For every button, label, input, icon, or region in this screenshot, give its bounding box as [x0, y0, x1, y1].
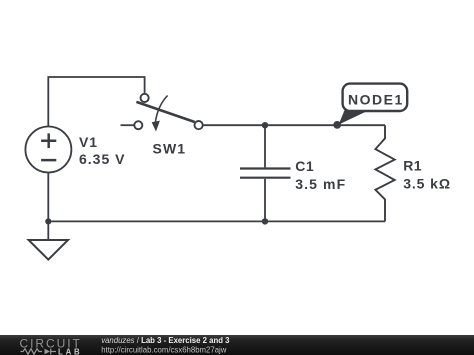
svg-text:6.35 V: 6.35 V — [79, 151, 125, 167]
svg-text:V1: V1 — [79, 134, 98, 150]
junction dot at C1 top — [262, 122, 268, 128]
svg-text:3.5 kΩ: 3.5 kΩ — [403, 176, 451, 192]
wire SW1 open stub — [121, 124, 135, 126]
svg-text:http://circuitlab.com/csx6h8bm: http://circuitlab.com/csx6h8bm27ajw — [101, 345, 227, 354]
svg-text:R1: R1 — [403, 158, 422, 174]
wire SW1 common to R1 top rail — [203, 124, 385, 126]
svg-text:vanduzes / Lab 3 - Exercise 2: vanduzes / Lab 3 - Exercise 2 and 3 — [101, 336, 230, 345]
svg-text:NODE1: NODE1 — [348, 91, 404, 107]
svg-text:C1: C1 — [295, 158, 314, 174]
ground — [29, 221, 68, 259]
capacitor C1 — [240, 125, 291, 221]
wire V1 bottom to ground node — [47, 171, 49, 221]
junction dot at V1 bottom — [45, 218, 51, 224]
svg-text:LAB: LAB — [58, 347, 82, 355]
wire bottom rail — [48, 220, 385, 222]
svg-text:3.5 mF: 3.5 mF — [295, 176, 346, 192]
node NODE1 callout — [339, 84, 408, 125]
svg-text:SW1: SW1 — [153, 141, 187, 157]
wire V1 top to SW1 terminal — [48, 77, 144, 128]
switch SW1 — [134, 94, 202, 132]
junction dot at C1 bottom — [262, 218, 268, 224]
resistor R1 — [375, 125, 394, 221]
voltage source V1 — [25, 127, 71, 173]
footer CircuitLab logo — [20, 337, 83, 355]
node NODE1 dot — [333, 121, 341, 129]
